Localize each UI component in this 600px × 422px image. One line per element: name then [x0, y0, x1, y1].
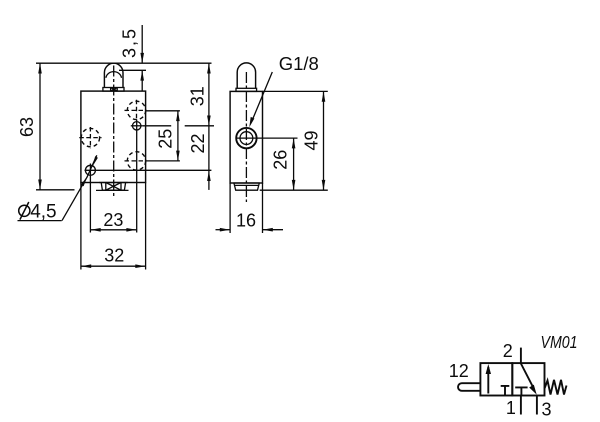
right box blocked port T [515, 387, 527, 395]
leader arrow lower [81, 176, 88, 186]
svg-text:4,5: 4,5 [30, 202, 56, 223]
bottom foot side [234, 183, 260, 190]
pilot pin actuator [458, 383, 480, 391]
dimension 31 22 line [208, 63, 210, 190]
63 top arrow [38, 63, 42, 73]
svg-text:3: 3 [541, 400, 551, 420]
plunger base washer front [103, 88, 124, 92]
49 bottom arrow [322, 180, 326, 190]
32 right arrow [135, 264, 145, 268]
return spring [545, 380, 567, 395]
port center line to 26 dim [236, 137, 298, 139]
25 top extension line [146, 110, 180, 112]
31 top arrow [207, 63, 211, 73]
G1/8 port outer circle [236, 128, 256, 148]
31 bottom arrow [207, 116, 211, 126]
PNEUMATIC SYMBOL VM01 [458, 348, 566, 415]
26 top arrow [292, 138, 296, 148]
svg-text:3,5: 3,5 [120, 29, 140, 58]
dimension 26 line [293, 138, 295, 190]
body side view [230, 91, 262, 183]
valve box right [512, 363, 544, 395]
dimension 49 line [323, 91, 325, 190]
svg-text:26: 26 [270, 150, 290, 170]
svg-text:25: 25 [156, 129, 176, 149]
16 right arrow [263, 228, 273, 232]
25 bottom arrow [176, 151, 180, 161]
23 left arrow [90, 228, 100, 232]
bottom foot front [99, 183, 128, 191]
49 top arrow [322, 91, 326, 101]
svg-text:1: 1 [506, 398, 516, 418]
leader diameter 4,5 [62, 176, 88, 220]
dimension 16 line right [263, 229, 284, 231]
diameter symbol [19, 205, 30, 216]
leader arrow upper [93, 156, 98, 165]
svg-text:22: 22 [188, 133, 208, 153]
upper hole extension to 31 dim (two segments) [143, 125, 172, 127]
svg-text:49: 49 [301, 130, 321, 150]
port 1 line [520, 396, 522, 415]
port 3 line [536, 396, 538, 415]
inner arc extension line y70 [119, 69, 146, 71]
16 extension lines [229, 183, 231, 233]
16 left arrow [220, 228, 230, 232]
plunger base washer side [236, 88, 257, 91]
left box blocked port T [501, 386, 510, 396]
plunger dome outer arc front [104, 63, 123, 87]
26 bottom arrow [292, 180, 296, 190]
lower hole horizontal line to 22 dim [85, 169, 212, 171]
plunger dome side [237, 63, 255, 88]
svg-text:63: 63 [17, 117, 37, 137]
right box diagonal flow line [521, 364, 534, 389]
left box flow arrow line [487, 367, 489, 394]
foot bottom plane line front [96, 189, 129, 191]
dimension 3,5 line [141, 25, 143, 63]
G1/8 leader arrow [249, 117, 254, 127]
svg-text:12: 12 [449, 361, 469, 381]
upper hole vertical extension line [136, 120, 138, 233]
3,5 upper arrow (down) [140, 53, 144, 63]
svg-text:VM01: VM01 [541, 332, 578, 352]
63 bottom arrow [38, 180, 42, 190]
dimension 16 line left [216, 229, 231, 231]
right box diagonal arrow head [529, 385, 537, 395]
dimension 23 line [90, 229, 136, 231]
ARROWHEADS [38, 53, 325, 268]
svg-text:2: 2 [503, 341, 513, 361]
25 bottom extension line [145, 160, 180, 162]
svg-text:16: 16 [236, 211, 256, 231]
lower hole vertical extension line [89, 164, 91, 233]
32 extension lines [80, 183, 82, 270]
3,5 lower arrow (up) [140, 70, 144, 80]
upper right port dashed circle [127, 101, 145, 119]
foot bottom plane extension line to 49 dim [260, 189, 328, 191]
top extension line y63 [36, 62, 212, 64]
lower mounting hole [85, 165, 95, 175]
left port dashed circle [81, 128, 99, 146]
centerline front [113, 66, 115, 198]
leader shelf under 4,5 text [18, 220, 62, 222]
22 bottom arrow [207, 171, 211, 181]
23 right arrow [126, 228, 136, 232]
upper mounting hole [133, 122, 141, 130]
dimension 63 line [39, 63, 41, 190]
G1/8 port inner circle [240, 132, 253, 145]
25 top arrow [176, 111, 180, 121]
port 2 line [520, 348, 522, 364]
left box flow arrow head [486, 364, 491, 374]
32 left arrow [81, 264, 91, 268]
svg-text:G1/8: G1/8 [279, 53, 319, 74]
body front view [81, 91, 146, 182]
valve box left [480, 363, 512, 395]
dimension 25 line [177, 111, 179, 161]
centerline side [245, 72, 247, 202]
G1/8 leader line [253, 72, 273, 120]
63 bottom extension line [36, 189, 75, 191]
plunger dome inner arc front [106, 72, 122, 78]
top extension line side [263, 90, 328, 92]
svg-text:32: 32 [104, 245, 124, 265]
svg-text:31: 31 [188, 86, 208, 106]
lower right port dashed circle [127, 152, 145, 170]
svg-text:23: 23 [103, 210, 123, 230]
dimension 32 line [81, 265, 146, 267]
